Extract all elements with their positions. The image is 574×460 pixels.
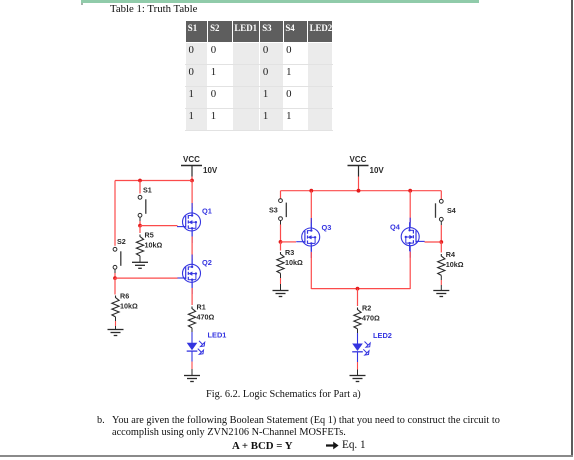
svg-text:R4: R4 [446, 250, 455, 259]
svg-text:10kΩ: 10kΩ [145, 241, 163, 250]
svg-text:Q2: Q2 [202, 258, 212, 267]
svg-text:R5: R5 [145, 231, 154, 240]
svg-text:10kΩ: 10kΩ [446, 260, 464, 269]
svg-text:LED1: LED1 [208, 330, 227, 339]
svg-text:LED2: LED2 [373, 331, 392, 340]
svg-text:R6: R6 [120, 292, 129, 301]
svg-text:470Ω: 470Ω [362, 314, 380, 323]
svg-text:Q4: Q4 [390, 223, 401, 232]
svg-text:10kΩ: 10kΩ [285, 258, 303, 267]
svg-text:10V: 10V [203, 166, 218, 175]
svg-text:10V: 10V [370, 166, 385, 175]
svg-text:VCC: VCC [183, 155, 200, 164]
svg-text:S2: S2 [117, 237, 126, 246]
svg-text:R3: R3 [285, 248, 294, 257]
svg-text:S4: S4 [447, 206, 456, 215]
svg-text:R1: R1 [197, 303, 206, 312]
svg-text:Q3: Q3 [322, 223, 332, 232]
svg-text:10kΩ: 10kΩ [120, 302, 138, 311]
svg-text:S3: S3 [269, 205, 278, 214]
svg-text:VCC: VCC [350, 155, 367, 164]
svg-text:R2: R2 [362, 304, 371, 313]
svg-text:470Ω: 470Ω [197, 313, 215, 322]
svg-text:S1: S1 [143, 185, 152, 194]
svg-text:Q1: Q1 [202, 207, 212, 216]
